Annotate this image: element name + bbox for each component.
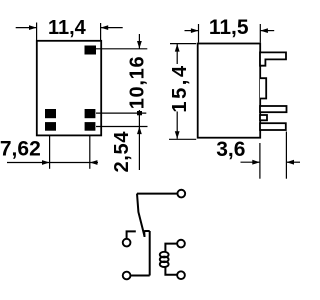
coil top lead wire bbox=[165, 244, 177, 252]
dimension 11,5 left arrow bbox=[185, 28, 199, 33]
svg-text:11,4: 11,4 bbox=[48, 17, 87, 39]
open contact wire bbox=[127, 231, 136, 238]
pad left-bottom bbox=[45, 122, 56, 131]
dimension 7,62 extension line right (from pad column) bbox=[89, 136, 91, 169]
dimension 11,4 extension line left bbox=[36, 23, 38, 41]
dimension 15,4 extension line top bbox=[170, 43, 196, 45]
svg-text:7,62: 7,62 bbox=[0, 137, 41, 160]
pin 1 top (stepped solder pin) bbox=[260, 52, 286, 65]
dimension 3,6 left arrow bbox=[241, 160, 260, 165]
dimension 10,16 extension line top (from pad) bbox=[96, 48, 147, 50]
wire stub to right contact bbox=[144, 230, 150, 232]
middle tab on case edge bbox=[260, 78, 266, 98]
wire right drop bbox=[149, 231, 151, 276]
svg-text:2,54: 2,54 bbox=[111, 131, 133, 173]
svg-text:15,4: 15,4 bbox=[169, 63, 191, 112]
terminal circle bottom-left bbox=[123, 272, 131, 280]
dimension 11,5 right arrow bbox=[260, 28, 274, 33]
dimension 2,54 extension line bottom bbox=[96, 126, 148, 128]
dimension 3,6 extension line left (case edge) bbox=[259, 143, 261, 179]
dimension 10,16/2,54 shared extension line bbox=[96, 112, 146, 114]
coil terminal circle bottom bbox=[177, 271, 185, 279]
pad right-top bbox=[85, 109, 96, 118]
dimension 11,4 left arrow bbox=[16, 25, 37, 30]
dimension 3,6 extension line right (pin tips) bbox=[285, 132, 287, 179]
wire bottom horizontal bbox=[131, 275, 150, 277]
relay case outline (bottom view, left) bbox=[37, 41, 101, 136]
pin 2 bbox=[260, 106, 287, 112]
pin 3 bbox=[260, 123, 286, 130]
dimension 11,4 extension line right bbox=[100, 23, 102, 40]
dimension 10,16 vertical line with top arrow bbox=[137, 34, 142, 113]
svg-text:11,5: 11,5 bbox=[209, 16, 249, 39]
dimension 7,62 line with outside arrows bbox=[7, 160, 98, 165]
pad right-bottom bbox=[85, 122, 96, 131]
dimension 15,4 line with internal arrows bbox=[175, 44, 180, 139]
dimension 11,5 extension line left bbox=[198, 24, 200, 43]
svg-text:10,16: 10,16 bbox=[126, 56, 148, 110]
small tab below pin 2 bbox=[260, 115, 267, 120]
dimension 11,5 extension line right bbox=[259, 24, 261, 43]
wire common horizontal bbox=[137, 193, 177, 195]
dimension 3,6 right arrow bbox=[286, 160, 300, 165]
dimension 7,62 extension line left (from pad column) bbox=[49, 136, 51, 169]
dimension 2,54 vertical line with up arrow bbox=[137, 113, 142, 170]
svg-text:3,6: 3,6 bbox=[216, 138, 245, 161]
relay case outline (side view, right) bbox=[198, 44, 261, 138]
pad left-top bbox=[45, 109, 56, 118]
terminal circle common (top right of schematic) bbox=[177, 190, 185, 198]
switch blade bbox=[137, 194, 144, 236]
coil L1 loops bbox=[160, 252, 169, 267]
dimension 10,16/2,54 shared square dot bbox=[137, 111, 142, 115]
dimension 15,4 extension line bottom bbox=[169, 138, 196, 140]
pad top-right (pin pad) bbox=[85, 46, 97, 55]
coil bottom lead wire bbox=[165, 266, 177, 275]
coil terminal circle top bbox=[177, 240, 185, 248]
open contact terminal circle bbox=[123, 239, 131, 247]
switch blade tip tick bbox=[143, 231, 145, 237]
dimension 11,4 right arrow bbox=[101, 25, 123, 30]
